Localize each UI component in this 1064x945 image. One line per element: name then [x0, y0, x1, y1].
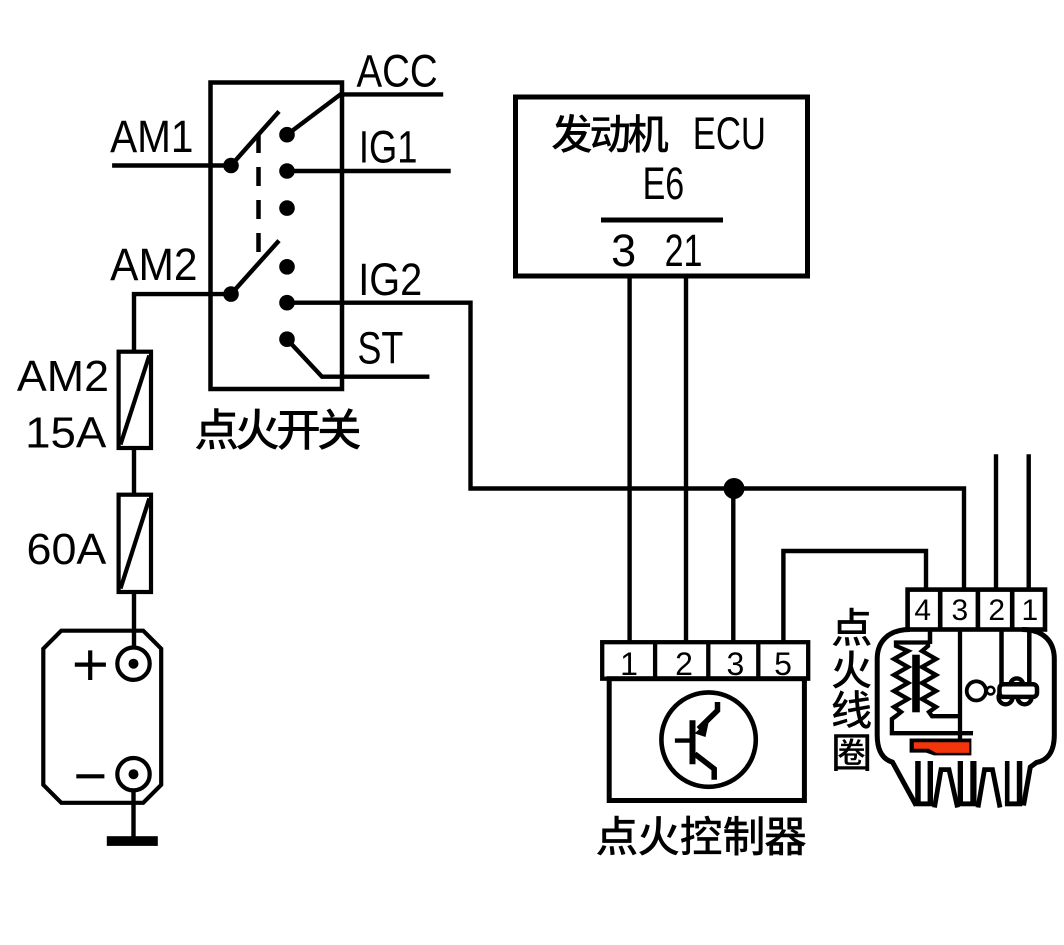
- svg-text:1: 1: [620, 646, 638, 682]
- svg-text:3: 3: [611, 225, 636, 276]
- svg-text:2: 2: [675, 646, 693, 682]
- svg-text:ST: ST: [358, 323, 404, 374]
- svg-text:ACC: ACC: [357, 45, 438, 96]
- svg-text:4: 4: [914, 594, 931, 627]
- svg-text:3: 3: [727, 646, 745, 682]
- svg-text:2: 2: [988, 594, 1005, 627]
- svg-text:E6: E6: [643, 158, 685, 209]
- svg-text:AM1: AM1: [110, 111, 193, 162]
- svg-text:5: 5: [774, 646, 792, 682]
- svg-text:AM2: AM2: [110, 239, 197, 290]
- svg-text:IG2: IG2: [358, 254, 422, 305]
- svg-text:AM2: AM2: [17, 352, 109, 401]
- svg-text:1: 1: [1021, 594, 1038, 627]
- svg-text:21: 21: [665, 225, 703, 276]
- svg-text:15A: 15A: [25, 408, 107, 457]
- svg-text:60A: 60A: [27, 525, 107, 574]
- svg-text:IG1: IG1: [359, 121, 418, 172]
- svg-text:3: 3: [952, 594, 969, 627]
- svg-text:ECU: ECU: [693, 108, 766, 159]
